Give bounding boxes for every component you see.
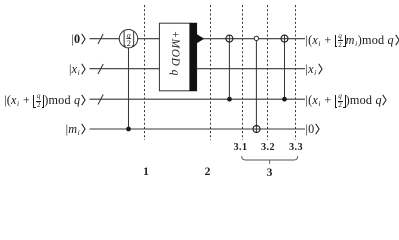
section 3 bracket bbox=[242, 156, 298, 164]
dashed separator line 3.3 bbox=[295, 5, 297, 140]
wire q4 (m qubit) bbox=[90, 128, 306, 130]
cnot 3.2 vertical wire bbox=[255, 41, 257, 133]
cnot 3.3 vertical wire bbox=[284, 35, 286, 99]
cnot 3.3 control dot on q3 bbox=[282, 97, 287, 102]
gate circle right floor bracket bbox=[132, 31, 134, 46]
sub label 3.3 bbox=[286, 143, 306, 153]
section label 1 bbox=[138, 165, 154, 178]
section label 3 bbox=[262, 166, 278, 179]
dashed separator line 2 bbox=[210, 5, 212, 140]
adder box black bar bbox=[189, 23, 196, 91]
gate circle fraction bar bbox=[126, 38, 131, 40]
svg-text:+MOD q: +MOD q bbox=[169, 31, 181, 76]
gate circle left floor bracket bbox=[124, 31, 126, 46]
sub label 3.1 bbox=[231, 143, 251, 153]
cnot 3.1 target circle on q1 bbox=[226, 35, 233, 42]
dashed separator line 3.2 bbox=[267, 5, 269, 140]
cnot 3.2 open control on q1 bbox=[254, 36, 258, 40]
label xi right of q2 bbox=[306, 63, 323, 75]
cnot 3.1 control dot on q3 bbox=[227, 97, 232, 102]
dashed separator line 1 bbox=[144, 5, 146, 140]
label ket0 right of q4 bbox=[306, 123, 321, 135]
section label 2 bbox=[200, 165, 216, 178]
gate circle floor(q/2) bbox=[119, 30, 137, 48]
bus slash wire q3 bbox=[98, 95, 103, 105]
label sum state right of q3 bbox=[306, 93, 388, 109]
bus slash wire q2 bbox=[98, 64, 103, 74]
cnot 3.2 target circle on q4 bbox=[253, 126, 260, 133]
label sum state left of q3 bbox=[4, 93, 86, 109]
svg-text:2: 2 bbox=[127, 39, 131, 48]
cnot 3.1 vertical wire bbox=[228, 35, 230, 99]
adder box +MOD q bbox=[159, 23, 196, 91]
adder box black triangle bbox=[197, 34, 205, 43]
label output state right of q1 bbox=[306, 33, 399, 49]
label ket0 left of q1 bbox=[71, 33, 86, 45]
wire q2 (x register) bbox=[90, 68, 306, 70]
control wire from q/2 gate to m qubit bbox=[128, 48, 130, 129]
bus slash wire q1 bbox=[98, 34, 103, 44]
label mi left of q4 bbox=[66, 123, 86, 135]
sub label 3.2 bbox=[258, 143, 278, 153]
dashed separator line 3.1 bbox=[242, 5, 244, 140]
control dot on wire q4 bbox=[126, 127, 131, 132]
wire q1 (top register) bbox=[90, 38, 306, 40]
wire q3 (sum register) bbox=[90, 98, 306, 100]
label xi left of q2 bbox=[69, 63, 86, 75]
cnot 3.3 target circle on q1 bbox=[281, 35, 288, 42]
